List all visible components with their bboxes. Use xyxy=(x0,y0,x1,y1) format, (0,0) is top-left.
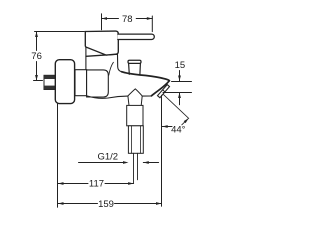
wall plane extension line (left reference for 117/159) xyxy=(57,104,59,208)
dimension 78: dimension line xyxy=(102,18,119,20)
dimension 78: left arrowhead xyxy=(102,17,108,20)
dimension 76 left: top extension line xyxy=(35,31,85,33)
hose connection dome xyxy=(128,89,143,96)
lever handle xyxy=(118,34,155,39)
dimension 76: bottom arrowhead xyxy=(35,75,38,81)
dimension 76 left: bottom extension stub xyxy=(34,80,43,82)
svg-text:15: 15 xyxy=(175,60,186,71)
dimension 78 top: extension line right xyxy=(151,16,153,32)
44 degree spray axis diagonal xyxy=(164,95,189,119)
svg-text:78: 78 xyxy=(122,14,133,25)
dimension 159 xyxy=(58,199,162,210)
dimension 76: dimension line xyxy=(36,32,38,51)
svg-text:117: 117 xyxy=(89,179,104,190)
cartridge hub (handle base) xyxy=(85,31,118,55)
threaded inlet nipple xyxy=(44,75,56,89)
hose collar segment xyxy=(128,96,142,105)
dimension 78 top: extension line left xyxy=(101,14,103,30)
diverter knob on spout xyxy=(128,60,141,74)
svg-text:44°: 44° xyxy=(171,125,186,136)
dimension 78: right arrowhead xyxy=(147,17,153,20)
svg-text:76: 76 xyxy=(31,51,42,62)
neck left silhouette xyxy=(85,47,87,70)
spout/body junction interior curve xyxy=(109,62,114,75)
spout tip vertical extension line (for 159 and 44deg) xyxy=(161,95,163,206)
spout top edge to tip and rounded end xyxy=(122,72,170,96)
svg-text:159: 159 xyxy=(98,199,114,210)
wall escutcheon xyxy=(55,60,74,104)
hub underside line xyxy=(86,54,117,56)
dimension 117 xyxy=(58,179,134,190)
hose nut segment xyxy=(127,105,143,125)
dimension G1/2 label and leader xyxy=(79,151,159,164)
dimension 15 right xyxy=(163,60,192,105)
hose bore lines below thread xyxy=(133,153,135,183)
body underside xyxy=(87,96,128,98)
dimension 76: top arrowhead xyxy=(35,32,38,38)
hose thread G1/2 segment xyxy=(128,126,143,154)
svg-text:G1/2: G1/2 xyxy=(97,151,118,162)
valve body (rounded right side) xyxy=(87,70,109,97)
aerator insert at spout tip xyxy=(158,85,170,98)
connector between escutcheon and body xyxy=(75,70,87,96)
underside right of hose dome xyxy=(142,93,156,97)
44 degree arrow onto vertical line xyxy=(162,126,172,128)
spout edge descending from hub xyxy=(118,54,122,71)
44 degree arrow onto diagonal xyxy=(182,119,188,125)
